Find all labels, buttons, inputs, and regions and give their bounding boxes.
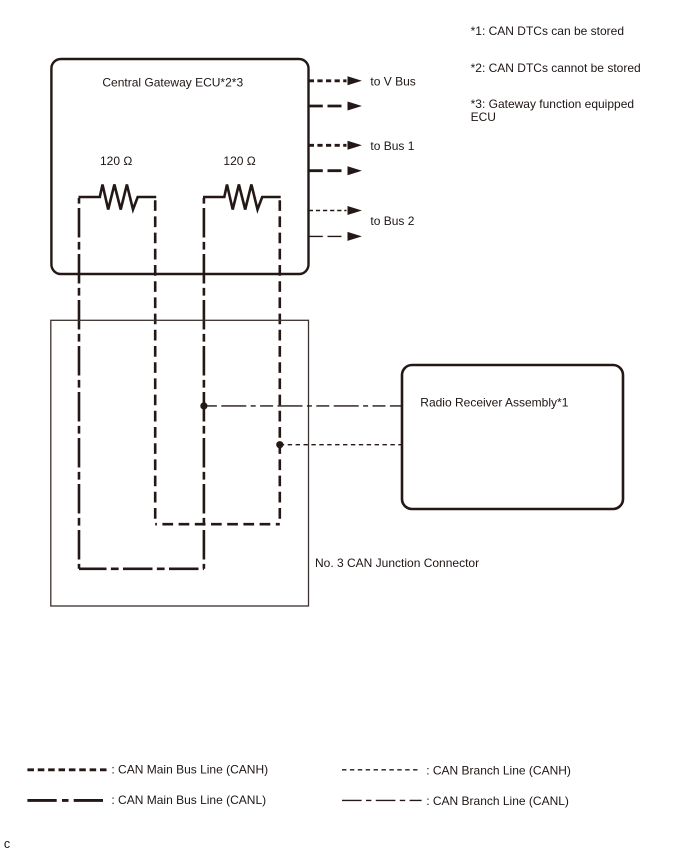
arrow to V Bus CANH [309, 76, 362, 85]
radio receiver box U2 [402, 365, 623, 509]
resistor R2 [203, 185, 281, 210]
wire CANH branch to radio [280, 444, 402, 446]
svg-text:ECU: ECU [471, 110, 496, 124]
svg-text:*2: CAN DTCs cannot be stored: *2: CAN DTCs cannot be stored [471, 61, 641, 75]
svg-text:No. 3 CAN Junction Connector: No. 3 CAN Junction Connector [315, 556, 479, 570]
svg-text:: CAN Branch Line (CANL): : CAN Branch Line (CANL) [426, 794, 569, 808]
node A junction dot CANL [200, 402, 207, 409]
arrow to Bus 1 CANH [309, 141, 362, 150]
wire CANH bottom horizontal v2-v4 [155, 523, 280, 526]
svg-text:to Bus 1: to Bus 1 [370, 139, 414, 153]
wire CANL bottom horizontal v1-v3 [79, 567, 204, 570]
arrow to V Bus CANL [309, 102, 362, 111]
ECU box U1 Central Gateway ECU [51, 59, 308, 274]
wire CANL vertical v1 from R1 left [78, 198, 81, 569]
legend line CAN Branch Line CANL [342, 799, 422, 801]
svg-text:: CAN Branch Line (CANH): : CAN Branch Line (CANH) [426, 764, 571, 778]
resistor R1 [79, 185, 157, 210]
svg-text:Radio Receiver Assembly*1: Radio Receiver Assembly*1 [420, 395, 568, 409]
legend line CAN Main Bus Line CANL [27, 799, 106, 802]
legend line CAN Main Bus Line CANH [27, 768, 107, 771]
svg-text:to V Bus: to V Bus [370, 75, 415, 89]
svg-text:: CAN Main Bus Line (CANL): : CAN Main Bus Line (CANL) [111, 793, 266, 807]
svg-text:Central Gateway ECU*2*3: Central Gateway ECU*2*3 [102, 76, 243, 90]
legend line CAN Branch Line CANH [342, 769, 420, 771]
arrow to Bus 1 CANL [309, 166, 362, 175]
wire CANH vertical v4 from R2 right [278, 198, 281, 524]
node B junction dot CANH [276, 441, 283, 448]
arrow to Bus 2 CANH branch [309, 206, 362, 215]
svg-text:120 Ω: 120 Ω [223, 154, 255, 168]
svg-text:: CAN Main Bus Line (CANH): : CAN Main Bus Line (CANH) [111, 763, 268, 777]
svg-text:*3: Gateway function equipped: *3: Gateway function equipped [471, 97, 634, 111]
arrow to Bus 2 CANL branch [309, 232, 362, 241]
svg-text:to Bus 2: to Bus 2 [370, 214, 414, 228]
junction connector box J1 [51, 320, 309, 606]
wire CANL branch to radio [204, 405, 402, 407]
svg-text:*1: CAN DTCs can be stored: *1: CAN DTCs can be stored [471, 24, 624, 38]
svg-text:120 Ω: 120 Ω [100, 154, 132, 168]
wire CANH vertical v2 from R1 right [154, 198, 157, 524]
wire CANL vertical v3 from R2 left [203, 198, 206, 569]
svg-text:c: c [4, 837, 10, 851]
